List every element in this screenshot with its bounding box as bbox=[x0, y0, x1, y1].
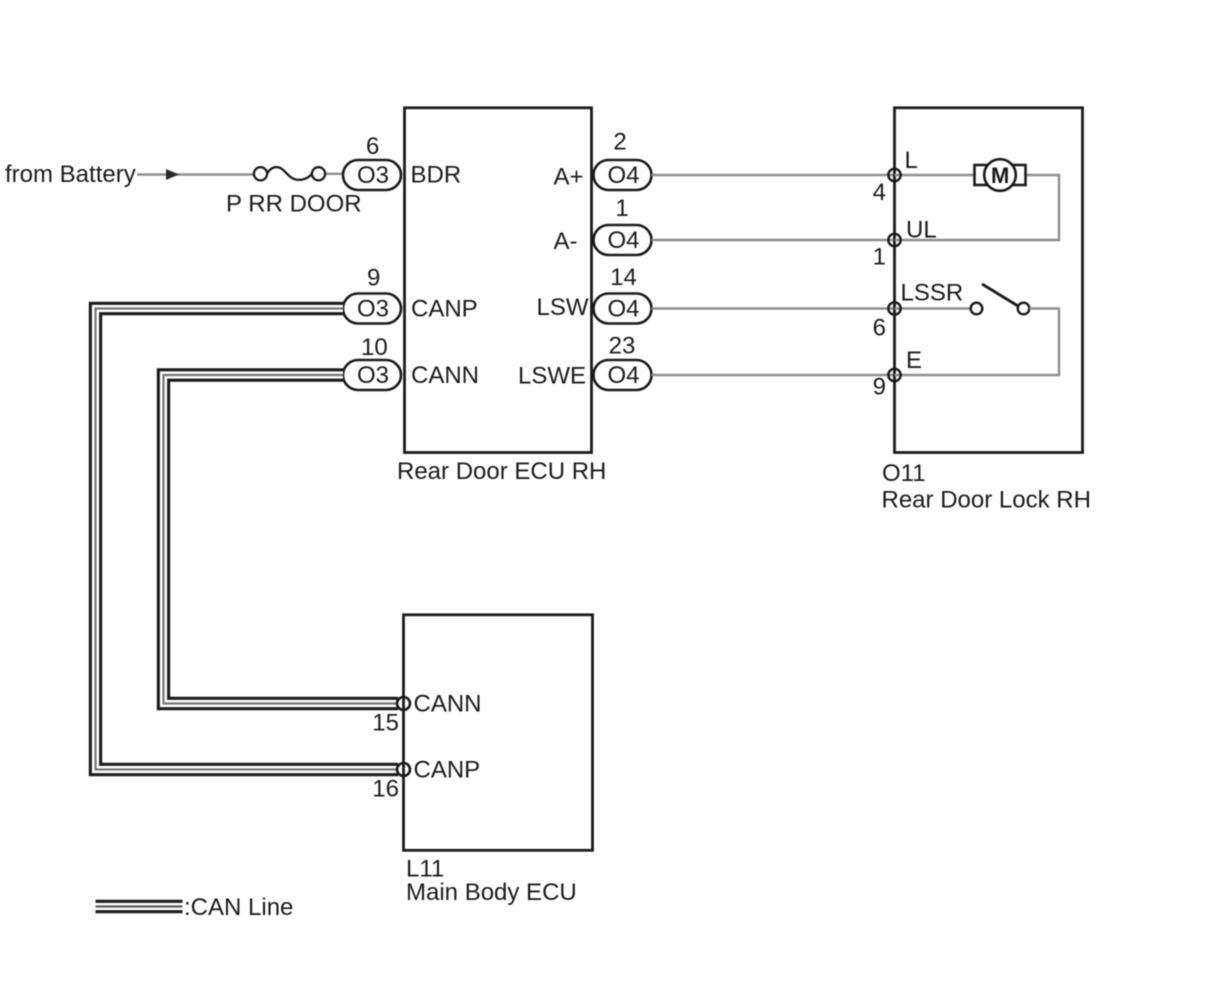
connector O4 pin 1 bbox=[594, 225, 652, 255]
Main Body ECU box bbox=[404, 615, 593, 851]
svg-text:CANP: CANP bbox=[414, 757, 481, 784]
wire LSWE to E bbox=[652, 374, 895, 376]
connector O3 pin 9 bbox=[343, 294, 401, 324]
Rear Door ECU RH box bbox=[405, 108, 592, 453]
switch LSSR bbox=[971, 303, 983, 315]
svg-text:L: L bbox=[905, 147, 918, 174]
svg-text:from Battery: from Battery bbox=[5, 161, 136, 188]
svg-text:LSSR: LSSR bbox=[901, 280, 964, 307]
svg-text:16: 16 bbox=[372, 776, 399, 803]
wire A- to UL bbox=[652, 239, 895, 241]
svg-text:O3: O3 bbox=[357, 296, 389, 323]
svg-text:6: 6 bbox=[873, 315, 886, 342]
svg-text:BDR: BDR bbox=[411, 162, 462, 189]
pin 15 bbox=[397, 697, 410, 710]
svg-text::CAN Line: :CAN Line bbox=[184, 894, 293, 921]
connector O3 pin 6 bbox=[343, 160, 401, 190]
svg-text:1: 1 bbox=[615, 195, 628, 222]
pin UL bbox=[888, 234, 900, 246]
svg-text:Main Body ECU: Main Body ECU bbox=[406, 879, 577, 906]
svg-text:LSW: LSW bbox=[536, 294, 588, 321]
svg-text:2: 2 bbox=[613, 129, 626, 156]
svg-text:4: 4 bbox=[873, 179, 886, 206]
svg-text:O11: O11 bbox=[882, 460, 926, 487]
svg-text:A-: A- bbox=[554, 228, 578, 255]
svg-text:Rear Door ECU RH: Rear Door ECU RH bbox=[397, 458, 606, 485]
svg-text:UL: UL bbox=[906, 217, 937, 244]
pin LSSR bbox=[888, 302, 900, 314]
svg-text:Rear Door Lock RH: Rear Door Lock RH bbox=[882, 487, 1091, 514]
svg-text:14: 14 bbox=[610, 264, 637, 291]
pin L bbox=[888, 169, 900, 181]
connector O3 pin 10 bbox=[343, 360, 401, 390]
connector O4 pin 2 bbox=[594, 160, 652, 190]
svg-text:O4: O4 bbox=[608, 162, 640, 189]
wire battery feed bbox=[137, 173, 254, 175]
svg-text:9: 9 bbox=[367, 265, 380, 292]
connector O4 pin 14 bbox=[594, 294, 652, 324]
svg-text:1: 1 bbox=[873, 244, 886, 271]
svg-text:CANN: CANN bbox=[414, 691, 482, 718]
svg-text:23: 23 bbox=[609, 333, 636, 360]
fuse P RR DOOR bbox=[254, 167, 325, 180]
svg-text:6: 6 bbox=[366, 133, 379, 160]
legend CAN line symbol bbox=[96, 900, 183, 913]
motor M bbox=[975, 159, 1026, 191]
wire LSW to LSSR bbox=[652, 307, 895, 309]
svg-text:CANN: CANN bbox=[411, 362, 479, 389]
CAN line CANN run bbox=[164, 375, 399, 704]
svg-text:E: E bbox=[906, 347, 922, 374]
svg-text:O4: O4 bbox=[608, 227, 640, 254]
connector O4 pin 23 bbox=[594, 360, 652, 390]
svg-text:O3: O3 bbox=[357, 362, 389, 389]
wire switch to E bbox=[895, 309, 1060, 376]
wire lock motor loop bbox=[895, 174, 976, 176]
svg-text:10: 10 bbox=[361, 334, 388, 361]
svg-text:CANP: CANP bbox=[411, 296, 478, 323]
pin E bbox=[888, 369, 900, 381]
svg-text:15: 15 bbox=[372, 710, 399, 737]
CAN line CANP run bbox=[96, 309, 399, 770]
svg-text:LSWE: LSWE bbox=[518, 363, 586, 390]
svg-text:M: M bbox=[991, 163, 1009, 188]
svg-text:O4: O4 bbox=[608, 362, 640, 389]
wire A+ to L bbox=[652, 174, 895, 176]
arrow battery direction bbox=[166, 169, 179, 180]
wire fuse to connector bbox=[325, 173, 344, 175]
svg-text:9: 9 bbox=[873, 374, 886, 401]
svg-text:O4: O4 bbox=[608, 296, 640, 323]
wire lock switch feed bbox=[895, 307, 972, 309]
svg-text:P RR DOOR: P RR DOOR bbox=[226, 191, 362, 218]
Rear Door Lock RH box bbox=[895, 108, 1083, 453]
pin 16 bbox=[397, 763, 410, 776]
svg-text:O3: O3 bbox=[357, 162, 389, 189]
svg-text:A+: A+ bbox=[553, 164, 583, 191]
